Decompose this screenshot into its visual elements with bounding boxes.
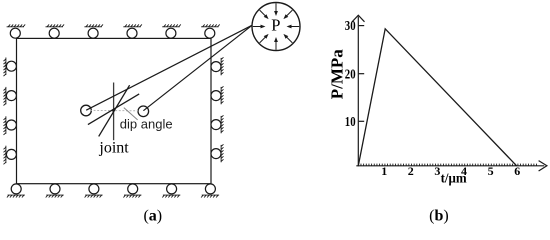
hatch pad above top roller 1 <box>7 24 26 26</box>
svg-text:3: 3 <box>434 164 440 178</box>
top roller 3 <box>88 28 98 38</box>
hatch pad right of right roller 3 <box>221 115 223 133</box>
joint centre junction dot <box>112 109 115 112</box>
svg-text:(a): (a) <box>143 208 162 225</box>
svg-text:2: 2 <box>408 164 414 178</box>
top roller 5 <box>166 28 176 38</box>
inward arrow 2 of P <box>283 34 292 43</box>
svg-text:dip angle: dip angle <box>120 117 173 132</box>
inward arrow 1 of P <box>287 25 300 29</box>
bottom roller 3 <box>89 184 99 194</box>
bottom roller 4 <box>128 184 138 194</box>
y tick 10 <box>359 120 365 122</box>
bottom roller 5 <box>167 184 177 194</box>
hatch pad left of left roller 2 <box>4 87 6 106</box>
y tick 20 <box>359 73 365 75</box>
hatch pad above top roller 2 <box>46 24 65 26</box>
hatch pad below bottom roller 1 <box>7 195 25 197</box>
x axis tick marks <box>361 164 537 166</box>
bottom roller 2 <box>50 184 60 194</box>
right roller 4 <box>211 149 221 159</box>
dashed horizontal reference line <box>90 109 138 111</box>
svg-text:t/μm: t/μm <box>441 172 467 187</box>
hatch pad right of right roller 2 <box>221 86 223 104</box>
svg-text:joint: joint <box>98 139 129 156</box>
inward arrow 5 of P <box>253 25 266 29</box>
left roller 3 <box>6 120 16 130</box>
y axis arrowhead <box>352 15 364 22</box>
y axis of graph <box>357 17 359 167</box>
hatch pad below bottom roller 4 <box>123 195 141 197</box>
x axis of graph <box>356 165 544 167</box>
joint line 60 deg <box>99 85 130 136</box>
triangular pressure pulse curve <box>358 29 516 166</box>
top roller 4 <box>127 28 137 38</box>
hatch pad above top roller 3 <box>84 24 103 26</box>
svg-text:1: 1 <box>381 164 387 178</box>
joint line vertical (90 deg) <box>113 83 115 141</box>
inward arrow 4 of P <box>260 34 269 43</box>
monitoring point right <box>138 106 149 117</box>
hatch pad right of right roller 4 <box>221 144 223 162</box>
inward arrow 8 of P <box>283 10 292 19</box>
right roller 1 <box>211 62 221 72</box>
bottom roller 6 <box>205 184 215 194</box>
right roller 3 <box>211 120 221 130</box>
svg-text:(b): (b) <box>429 208 449 225</box>
hatch pad below bottom roller 5 <box>162 195 180 197</box>
hatch pad below bottom roller 6 <box>201 195 219 197</box>
hatch pad below bottom roller 3 <box>85 195 103 197</box>
y tick 30 <box>359 25 365 27</box>
hatch pad right of right roller 1 <box>221 57 223 75</box>
inward arrow 7 of P <box>274 3 278 16</box>
svg-text:6: 6 <box>514 164 520 178</box>
model domain rectangle <box>17 38 212 183</box>
hatch pad above top roller 5 <box>162 24 181 26</box>
hatch pad left of left roller 4 <box>4 146 6 165</box>
monitoring point left <box>81 105 92 116</box>
right roller 2 <box>211 91 221 101</box>
top roller 6 <box>205 28 215 38</box>
hatch pad left of left roller 1 <box>4 58 6 77</box>
leader line for dip angle <box>124 108 138 120</box>
blast source P circle <box>252 3 300 51</box>
svg-text:P/MPa: P/MPa <box>327 49 346 100</box>
ray from P to left monitoring point <box>86 25 252 110</box>
joint line 30 deg <box>88 94 139 125</box>
top roller 2 <box>49 28 59 38</box>
svg-text:5: 5 <box>488 164 494 178</box>
svg-text:P: P <box>271 15 280 34</box>
bottom roller 1 <box>11 184 21 194</box>
left roller 1 <box>6 61 16 71</box>
hatch pad above top roller 4 <box>123 24 142 26</box>
left roller 4 <box>6 149 16 159</box>
hatch pad above top roller 6 <box>201 24 220 26</box>
left roller 2 <box>6 91 16 101</box>
x axis arrowhead <box>539 161 547 171</box>
svg-text:30: 30 <box>345 19 356 34</box>
svg-text:20: 20 <box>345 67 356 82</box>
hatch pad left of left roller 3 <box>4 116 6 135</box>
svg-text:10: 10 <box>345 115 356 130</box>
hatch pad below bottom roller 2 <box>46 195 64 197</box>
inward arrow 3 of P <box>274 37 278 50</box>
inward arrow 6 of P <box>260 10 269 19</box>
ray from P to right monitoring point <box>143 25 252 111</box>
top roller 1 <box>10 28 20 38</box>
